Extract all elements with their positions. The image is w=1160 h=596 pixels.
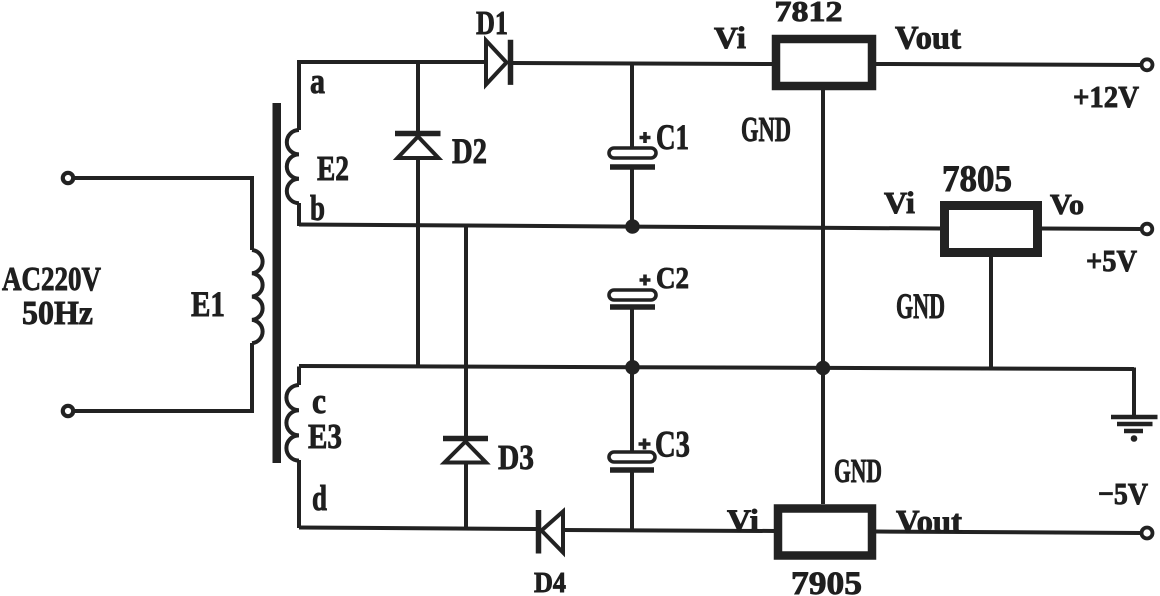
svg-text:Vi: Vi — [714, 20, 746, 55]
svg-text:Vi: Vi — [727, 503, 759, 538]
svg-text:d: d — [312, 478, 327, 518]
wire C1 branch bottom — [630, 167, 634, 227]
wire 7805 output — [1042, 227, 1141, 232]
wire b-line — [299, 225, 940, 229]
wire 7905 output — [876, 532, 1141, 534]
inductor E3 secondary winding — [286, 385, 299, 461]
capacitor C1 bottom plate — [610, 164, 655, 170]
capacitor C1 top plate — [609, 148, 656, 158]
wire input top — [74, 176, 252, 180]
output terminal -5V — [1142, 528, 1153, 539]
svg-text:7905: 7905 — [791, 566, 862, 596]
svg-text:D2: D2 — [452, 131, 487, 171]
regulator U3 7905 box — [778, 509, 872, 556]
svg-text:C3: C3 — [655, 425, 690, 466]
diode D3 cathode bar — [443, 436, 488, 442]
wire primary vertical bottom — [250, 343, 254, 413]
svg-text:Vo: Vo — [1050, 189, 1084, 221]
diode D2 triangle — [398, 137, 439, 159]
wire input bottom — [74, 409, 252, 413]
svg-text:Vi: Vi — [884, 185, 915, 220]
ground symbol — [1111, 417, 1158, 442]
capacitor C2 plus sign — [640, 275, 651, 286]
diode D4 triangle — [542, 512, 564, 553]
capacitor C2 bottom plate — [610, 304, 655, 310]
svg-text:Vout: Vout — [895, 21, 961, 57]
svg-text:7812: 7812 — [775, 0, 843, 28]
inductor E2 secondary winding — [287, 130, 299, 203]
wire D3 branch top — [464, 226, 468, 437]
diode D1 triangle — [486, 41, 507, 85]
wire D2 branch bottom — [416, 158, 420, 367]
svg-text:+5V: +5V — [1086, 243, 1138, 278]
wire a-line D1 to 7812 — [512, 63, 772, 64]
svg-text:D1: D1 — [476, 5, 508, 42]
junction dot ground 7812GND — [816, 361, 831, 376]
regulator U1 7812 box — [776, 39, 872, 86]
wire d-line left — [299, 528, 536, 530]
output terminal +12V — [1142, 59, 1153, 70]
wire D2 branch top — [416, 62, 420, 132]
wire D3 branch bottom — [464, 462, 468, 529]
input terminal top — [63, 173, 73, 183]
capacitor C3 bottom plate — [610, 467, 654, 473]
regulator U2 7805 box — [945, 206, 1038, 253]
capacitor C3 top plate — [609, 452, 655, 462]
input terminal bottom — [63, 406, 73, 416]
output terminal +5V — [1142, 224, 1153, 235]
wire ground drop — [1132, 368, 1136, 417]
svg-text:AC220V: AC220V — [2, 261, 101, 298]
svg-text:D3: D3 — [498, 438, 534, 477]
wire C1 branch top — [630, 63, 634, 149]
diode D1 cathode bar — [508, 40, 514, 85]
wire primary vertical top — [250, 176, 254, 250]
svg-text:E3: E3 — [308, 417, 342, 456]
svg-text:E1: E1 — [191, 284, 225, 324]
svg-text:C2: C2 — [656, 260, 689, 295]
wire ground line — [299, 366, 1134, 369]
svg-text:GND: GND — [834, 453, 882, 490]
wire 7812 output — [876, 64, 1141, 65]
wire E2 top lead — [299, 62, 486, 130]
capacitor C1 plus sign — [640, 132, 651, 143]
wire C3 branch top — [630, 368, 634, 453]
wire C2 to ground line — [630, 307, 634, 368]
svg-text:b: b — [310, 188, 325, 228]
wire E2 bottom lead — [297, 203, 301, 226]
diode D4 cathode bar — [536, 510, 542, 554]
svg-text:+12V: +12V — [1073, 79, 1140, 114]
svg-text:C1: C1 — [656, 117, 689, 157]
wire C3 branch bottom — [630, 470, 634, 530]
wire 7805 GND vertical — [989, 256, 993, 369]
svg-text:−5V: −5V — [1098, 476, 1149, 511]
junction dot ground C3 — [625, 360, 640, 375]
junction dot b-line C2 — [625, 219, 640, 234]
svg-text:GND: GND — [741, 110, 791, 149]
svg-text:D4: D4 — [534, 568, 566, 596]
svg-text:E2: E2 — [317, 149, 349, 188]
svg-text:7805: 7805 — [942, 159, 1012, 200]
capacitor C2 top plate — [609, 290, 656, 300]
wire d-line right — [563, 530, 776, 531]
svg-text:GND: GND — [896, 286, 945, 326]
svg-text:a: a — [310, 61, 325, 101]
svg-text:50Hz: 50Hz — [22, 295, 93, 332]
svg-text:c: c — [312, 381, 326, 421]
wire 7812 GND vertical — [821, 90, 825, 504]
inductor E1 primary winding — [252, 250, 263, 343]
diode D2 cathode bar — [395, 131, 441, 137]
wire E3 top lead — [297, 367, 301, 386]
svg-text:Vout: Vout — [896, 505, 962, 541]
diode D3 triangle — [445, 442, 487, 463]
transformer core — [273, 103, 282, 463]
wire E3 bottom lead — [297, 460, 301, 528]
capacitor C3 plus sign — [639, 439, 651, 450]
